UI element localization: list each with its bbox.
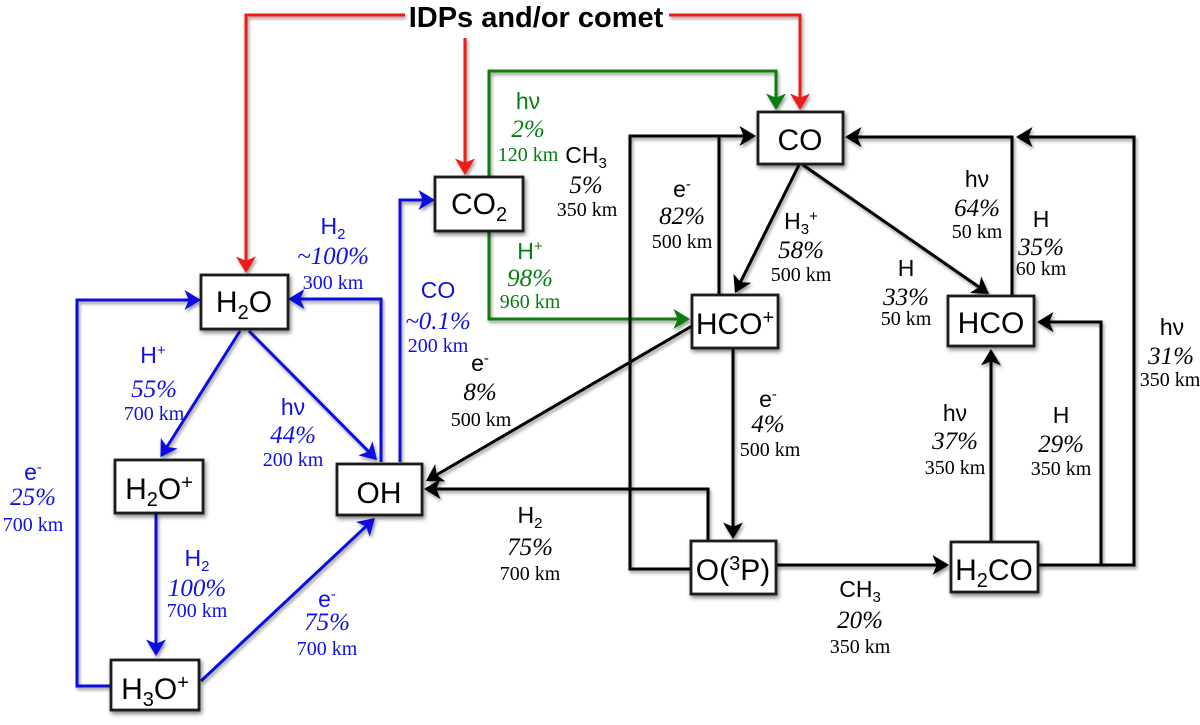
wire black CO to HCO+ (H3+ 58%) bbox=[736, 165, 799, 291]
svg-text:500 km: 500 km bbox=[451, 409, 512, 431]
wire red IDPs to H2O bbox=[246, 15, 405, 271]
label e- 82% 500 km (black, HCO+ to CO) bbox=[652, 176, 713, 253]
svg-text:H2: H2 bbox=[321, 213, 346, 243]
svg-text:200 km: 200 km bbox=[263, 449, 324, 471]
wire blue H2O+ to H3O+ (H2 100%) bbox=[155, 514, 158, 654]
svg-text:hν: hν bbox=[1160, 314, 1184, 340]
label H 33% 50 km (black, CO to HCO) bbox=[881, 255, 932, 330]
svg-text:31%: 31% bbox=[1147, 343, 1194, 370]
svg-text:350 km: 350 km bbox=[1140, 369, 1200, 391]
node HCO+ bbox=[692, 295, 778, 348]
node H2CO bbox=[951, 542, 1038, 592]
node H3O+ bbox=[111, 660, 199, 711]
label CH3 20% 350 km (black, O(3P) to H2CO) bbox=[830, 576, 891, 658]
svg-text:300 km: 300 km bbox=[303, 272, 364, 294]
label hv 2% 120 km (green, CO2 to CO) bbox=[498, 88, 559, 166]
svg-text:H2CO: H2CO bbox=[955, 554, 1033, 592]
svg-text:700 km: 700 km bbox=[3, 514, 64, 536]
wire blue H2O to H2O+ (H+ 55%) bbox=[162, 331, 241, 456]
svg-text:H2: H2 bbox=[185, 545, 210, 575]
svg-text:e-: e- bbox=[471, 350, 489, 376]
wire black O(3P) to H2CO (CH3 20%) bbox=[776, 564, 947, 567]
svg-text:350 km: 350 km bbox=[925, 457, 986, 479]
node CO2 bbox=[435, 177, 523, 231]
svg-text:33%: 33% bbox=[882, 284, 929, 311]
label hv 64% 50 km (black, HCO to CO) bbox=[952, 166, 1003, 243]
svg-text:75%: 75% bbox=[507, 534, 553, 561]
svg-text:H3+: H3+ bbox=[784, 208, 818, 238]
svg-text:H+: H+ bbox=[517, 238, 543, 264]
label e- 4% 500 km (black, HCO+ to O(3P)) bbox=[740, 386, 801, 461]
wire red IDPs to CO2 bbox=[464, 38, 467, 173]
label H 35% 60 km (black) bbox=[1016, 206, 1067, 280]
svg-text:700 km: 700 km bbox=[167, 600, 228, 622]
wire black HCO+ to OH (e- 8%) bbox=[428, 326, 692, 480]
svg-text:37%: 37% bbox=[931, 428, 978, 455]
svg-text:44%: 44% bbox=[270, 422, 316, 449]
svg-text:CO: CO bbox=[778, 124, 823, 157]
node O(3P) bbox=[691, 541, 776, 594]
svg-text:H2: H2 bbox=[518, 502, 543, 532]
svg-text:2%: 2% bbox=[511, 116, 544, 143]
svg-text:CO: CO bbox=[421, 277, 456, 303]
svg-text:350 km: 350 km bbox=[1031, 458, 1092, 480]
wire black O(3P) to OH (H2 75%) bbox=[426, 489, 708, 541]
svg-text:700 km: 700 km bbox=[124, 403, 185, 425]
wire green CO2 to HCO+ (H+ 98%) bbox=[489, 231, 688, 319]
label H+ 98% 960 km (green, CO2 to HCO+) bbox=[500, 238, 561, 313]
label H3+ 58% 500 km (black, CO to HCO+) bbox=[771, 208, 832, 286]
svg-text:55%: 55% bbox=[131, 376, 177, 403]
svg-text:H+: H+ bbox=[140, 342, 166, 368]
svg-text:100%: 100% bbox=[168, 575, 226, 602]
svg-text:e-: e- bbox=[673, 176, 691, 202]
label e- 8% 500 km (black, HCO+ to OH) bbox=[451, 350, 512, 431]
node OH bbox=[337, 464, 422, 515]
wire black H2CO to HCO (hv 37%) bbox=[990, 351, 993, 541]
wire blue OH to CO2 (CO ~0.1%) bbox=[400, 200, 433, 462]
svg-text:500 km: 500 km bbox=[740, 439, 801, 461]
svg-text:29%: 29% bbox=[1038, 431, 1084, 458]
label hv 31% 350 km (black, H2CO to CO) bbox=[1140, 314, 1200, 391]
label H 29% 350 km (black, H2CO to HCO right) bbox=[1031, 402, 1092, 480]
node CO bbox=[758, 112, 843, 164]
svg-text:H: H bbox=[898, 255, 915, 281]
node H2O+ bbox=[115, 460, 203, 513]
svg-text:25%: 25% bbox=[10, 484, 56, 511]
svg-text:OH: OH bbox=[357, 477, 402, 510]
wire black H2CO to CO (hv 31%) bbox=[1018, 137, 1134, 565]
svg-text:350 km: 350 km bbox=[557, 199, 618, 221]
label e- 25% 700 km (blue, H3O+ to H2O) bbox=[3, 459, 64, 536]
label H2 ~100% 300 km (blue, OH to H2O) bbox=[297, 213, 369, 294]
svg-text:20%: 20% bbox=[837, 607, 883, 634]
svg-text:CH3: CH3 bbox=[839, 576, 881, 606]
wire black H2CO to HCO (H 29%) bbox=[1039, 322, 1101, 565]
svg-text:IDPs and/or comet: IDPs and/or comet bbox=[409, 2, 664, 34]
svg-text:e-: e- bbox=[759, 386, 777, 412]
svg-text:e-: e- bbox=[24, 459, 42, 485]
svg-text:hν: hν bbox=[516, 88, 540, 114]
svg-text:350 km: 350 km bbox=[830, 636, 891, 658]
wire blue OH to H2O (H2 ~100%) bbox=[290, 299, 381, 462]
svg-text:50 km: 50 km bbox=[952, 221, 1003, 243]
svg-text:5%: 5% bbox=[569, 172, 602, 199]
wire black HCO+ to CO (e- 82%) bbox=[718, 135, 721, 294]
label H2 100% 700 km (blue, H2O+ to H3O+) bbox=[167, 545, 228, 622]
node HCO bbox=[948, 296, 1034, 346]
svg-text:960 km: 960 km bbox=[500, 291, 561, 313]
svg-text:hν: hν bbox=[965, 166, 989, 192]
svg-text:98%: 98% bbox=[507, 265, 553, 292]
svg-text:60 km: 60 km bbox=[1016, 258, 1067, 280]
svg-text:35%: 35% bbox=[1017, 234, 1064, 261]
title IDPs and/or comet bbox=[409, 2, 664, 34]
svg-text:700 km: 700 km bbox=[297, 638, 358, 660]
wire black HCO+ to O(3P) (e- 4%) bbox=[732, 349, 735, 537]
wire blue H3O+ to OH (e- 75%) bbox=[201, 519, 374, 681]
svg-text:hν: hν bbox=[281, 394, 305, 420]
svg-text:50 km: 50 km bbox=[881, 308, 932, 330]
label CH3 5% 350 km (black, O(3P) to CO) bbox=[557, 142, 618, 221]
wire blue H2O to OH (hv 44%) bbox=[249, 331, 376, 459]
wire black O(3P) to CO (CH3 5%) bbox=[630, 136, 754, 569]
svg-text:58%: 58% bbox=[778, 237, 824, 264]
svg-text:120 km: 120 km bbox=[498, 144, 559, 166]
label CO ~0.1% 200 km (blue, OH to CO2) bbox=[405, 277, 471, 357]
svg-text:~100%: ~100% bbox=[297, 243, 369, 270]
label hv 44% 200 km (blue, H2O to OH) bbox=[263, 394, 324, 471]
svg-text:hν: hν bbox=[943, 400, 967, 426]
wire black CO to HCO (H 33%) bbox=[803, 165, 987, 293]
wire blue H3O+ to H2O (e- 25%) bbox=[77, 300, 199, 686]
svg-text:HCO+: HCO+ bbox=[696, 307, 774, 341]
svg-text:700 km: 700 km bbox=[500, 563, 561, 585]
svg-text:500 km: 500 km bbox=[652, 231, 713, 253]
svg-text:8%: 8% bbox=[463, 379, 496, 406]
label H2 75% 700 km (black, O(3P) to OH) bbox=[500, 502, 561, 585]
svg-text:500 km: 500 km bbox=[771, 264, 832, 286]
svg-text:82%: 82% bbox=[659, 203, 705, 230]
svg-text:CH3: CH3 bbox=[565, 142, 607, 172]
wire green CO2 to CO (hv 2%) bbox=[489, 71, 776, 177]
node H2O bbox=[201, 275, 288, 329]
svg-text:4%: 4% bbox=[751, 411, 784, 438]
wire red IDPs to CO bbox=[669, 15, 800, 108]
label hv 37% 350 km (black, H2CO to HCO) bbox=[925, 400, 986, 479]
wire black HCO to CO (hv 64%) bbox=[847, 137, 1012, 296]
label e- 75% 700 km (blue, H3O+ to OH) bbox=[297, 586, 358, 660]
svg-text:HCO: HCO bbox=[958, 307, 1025, 340]
svg-text:75%: 75% bbox=[304, 609, 350, 636]
svg-text:H: H bbox=[1053, 402, 1070, 428]
svg-text:64%: 64% bbox=[954, 195, 1000, 222]
label H+ 55% 700 km (blue, H2O to H2O+) bbox=[124, 342, 185, 425]
svg-text:200 km: 200 km bbox=[408, 335, 469, 357]
svg-text:~0.1%: ~0.1% bbox=[405, 308, 471, 335]
svg-text:H: H bbox=[1033, 206, 1050, 232]
